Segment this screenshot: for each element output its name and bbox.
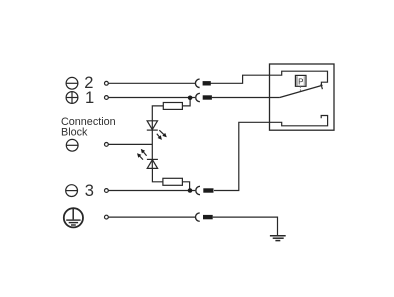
pressure actuator dashed link [299, 86, 301, 92]
wire connector1 into switch box [212, 97, 280, 99]
wire pin3 to connector [108, 190, 195, 192]
wire earth connector to ground [213, 217, 278, 235]
LED D2 (cathode up) [147, 159, 158, 168]
connector contact socket 1 [196, 93, 200, 101]
connector contact pin 1 [203, 95, 212, 99]
terminal symbol minus (connection block common) [66, 139, 78, 151]
resistor R2 [163, 178, 183, 185]
wire pin2 to connector [108, 82, 195, 84]
node terminal pin 2 [105, 81, 109, 85]
svg-text:P: P [298, 77, 303, 86]
ground symbol [270, 236, 286, 241]
connector contact pin earth [203, 215, 213, 219]
node terminal pin 3 [105, 189, 109, 193]
connector contact socket earth [195, 213, 199, 221]
wire common terminal to LED stack [108, 143, 152, 145]
junction dot line3 [188, 188, 193, 193]
pressure sensor element P [295, 75, 306, 86]
connector contact pin 2 [203, 81, 211, 85]
terminal symbol minus (pin 2) [66, 77, 78, 89]
node terminal pin 1 [105, 96, 109, 100]
LED D1 (cathode down) [147, 121, 158, 130]
LED D1 emission arrows [157, 130, 167, 140]
wire pin1 to connector [108, 97, 195, 99]
svg-text:3: 3 [85, 182, 94, 200]
connector contact pin 3 [203, 188, 213, 192]
LED D2 emission arrows [137, 149, 147, 160]
svg-text:Block: Block [61, 126, 88, 138]
wire connector2 to switch box top pin [211, 71, 328, 85]
connector contact socket 3 [196, 186, 200, 194]
node terminal common [105, 143, 109, 147]
wire connector3 to switch box bottom pin [214, 116, 328, 191]
switch lever contact tick [321, 84, 322, 89]
resistor R1 [163, 103, 182, 110]
wire earth terminal to connector [108, 216, 195, 218]
connector contact socket 2 [195, 79, 199, 87]
wire D1 to common node [151, 130, 153, 168]
terminal symbol minus (pin 3) [66, 185, 78, 197]
protective earth terminal symbol [64, 208, 83, 227]
junction dot line1 [188, 96, 193, 101]
switch lever [280, 85, 323, 97]
wire D2 to resistor R2 [152, 168, 163, 181]
wire R1 to LED D1 [152, 106, 163, 130]
svg-text:1: 1 [85, 89, 94, 107]
wire R2 to junction on line 3 [182, 182, 189, 191]
node terminal earth [105, 215, 109, 219]
wire junction1 branch to resistor R1 [182, 98, 190, 106]
terminal symbol plus (pin 1) [66, 92, 78, 104]
pressure switch box outline [270, 64, 335, 130]
